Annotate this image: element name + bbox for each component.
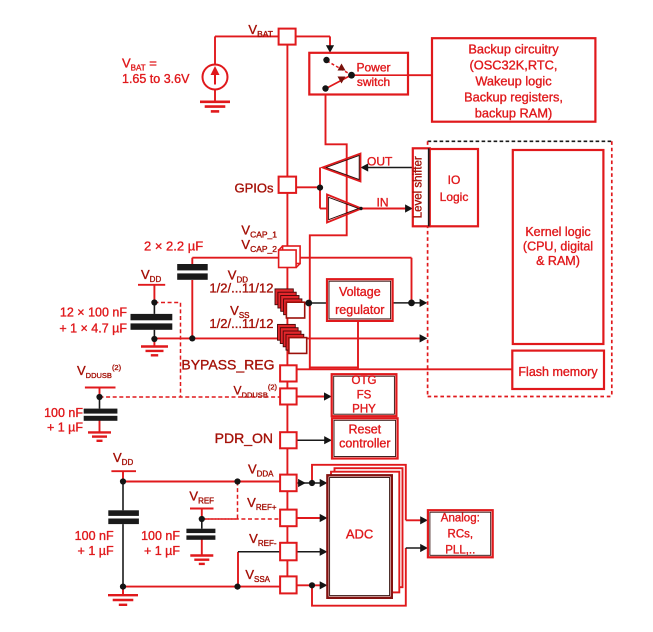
svg-text:Wakeup logic: Wakeup logic <box>475 74 552 89</box>
svg-text:(OSC32K,RTC,: (OSC32K,RTC, <box>470 58 558 73</box>
svg-text:Backup circuitry: Backup circuitry <box>468 42 559 57</box>
svg-text:VDDUSB(2): VDDUSB(2) <box>77 363 122 380</box>
svg-text:VBAT =: VBAT = <box>122 56 157 73</box>
svg-text:Power: Power <box>356 61 390 75</box>
svg-text:+ 1 µF: + 1 µF <box>47 421 83 435</box>
svg-text:VREF: VREF <box>189 489 214 506</box>
svg-text:1/2/...11/12: 1/2/...11/12 <box>209 316 273 331</box>
svg-text:RCs,: RCs, <box>448 529 474 541</box>
svg-text:+ 1 × 4.7 µF: + 1 × 4.7 µF <box>59 322 127 336</box>
svg-text:VDDA: VDDA <box>248 462 274 479</box>
svg-text:100 nF: 100 nF <box>44 406 83 420</box>
svg-text:backup RAM): backup RAM) <box>475 106 553 121</box>
svg-text:+ 1 µF: + 1 µF <box>144 544 180 558</box>
svg-text:PDR_ON: PDR_ON <box>215 430 273 446</box>
svg-text:VCAP_2: VCAP_2 <box>241 237 277 254</box>
svg-text:1.65 to 3.6V: 1.65 to 3.6V <box>122 72 190 86</box>
svg-text:regulator: regulator <box>335 303 384 317</box>
svg-text:100 nF: 100 nF <box>75 529 114 543</box>
svg-text:Flash memory: Flash memory <box>518 365 598 379</box>
svg-text:VDD: VDD <box>113 450 133 467</box>
svg-text:BYPASS_REG: BYPASS_REG <box>181 357 274 373</box>
svg-text:VDDUSB(2): VDDUSB(2) <box>234 383 278 400</box>
svg-text:IN: IN <box>377 196 389 210</box>
svg-text:VBAT: VBAT <box>248 22 273 39</box>
svg-text:(CPU, digital: (CPU, digital <box>523 240 593 254</box>
svg-text:PLL,..: PLL,.. <box>445 545 475 557</box>
svg-text:FS: FS <box>357 390 372 402</box>
svg-text:100 nF: 100 nF <box>141 529 180 543</box>
svg-text:controller: controller <box>339 437 390 451</box>
svg-text:& RAM): & RAM) <box>536 254 580 268</box>
svg-text:Analog:: Analog: <box>441 513 480 525</box>
svg-text:GPIOs: GPIOs <box>234 181 274 196</box>
svg-text:PHY: PHY <box>352 404 376 416</box>
svg-text:IO: IO <box>448 173 461 187</box>
svg-text:VDD: VDD <box>141 267 161 284</box>
svg-text:Reset: Reset <box>348 423 381 437</box>
svg-text:+ 1 µF: + 1 µF <box>78 544 114 558</box>
svg-text:Logic: Logic <box>440 190 469 204</box>
svg-text:Kernel logic: Kernel logic <box>525 225 590 239</box>
svg-text:switch: switch <box>357 75 390 89</box>
svg-text:OTG: OTG <box>352 375 377 387</box>
svg-text:VREF-: VREF- <box>249 531 277 548</box>
svg-text:Voltage: Voltage <box>339 285 381 299</box>
svg-text:ADC: ADC <box>346 527 373 542</box>
svg-text:2 × 2.2 µF: 2 × 2.2 µF <box>144 239 203 254</box>
svg-text:Level shifter: Level shifter <box>413 156 425 218</box>
svg-text:VREF+: VREF+ <box>247 495 277 512</box>
svg-text:1/2/...11/12: 1/2/...11/12 <box>209 281 273 296</box>
svg-text:VSSA: VSSA <box>245 567 270 584</box>
svg-text:12 × 100 nF: 12 × 100 nF <box>60 306 127 320</box>
svg-text:OUT: OUT <box>367 155 393 169</box>
svg-text:Backup registers,: Backup registers, <box>464 90 563 105</box>
